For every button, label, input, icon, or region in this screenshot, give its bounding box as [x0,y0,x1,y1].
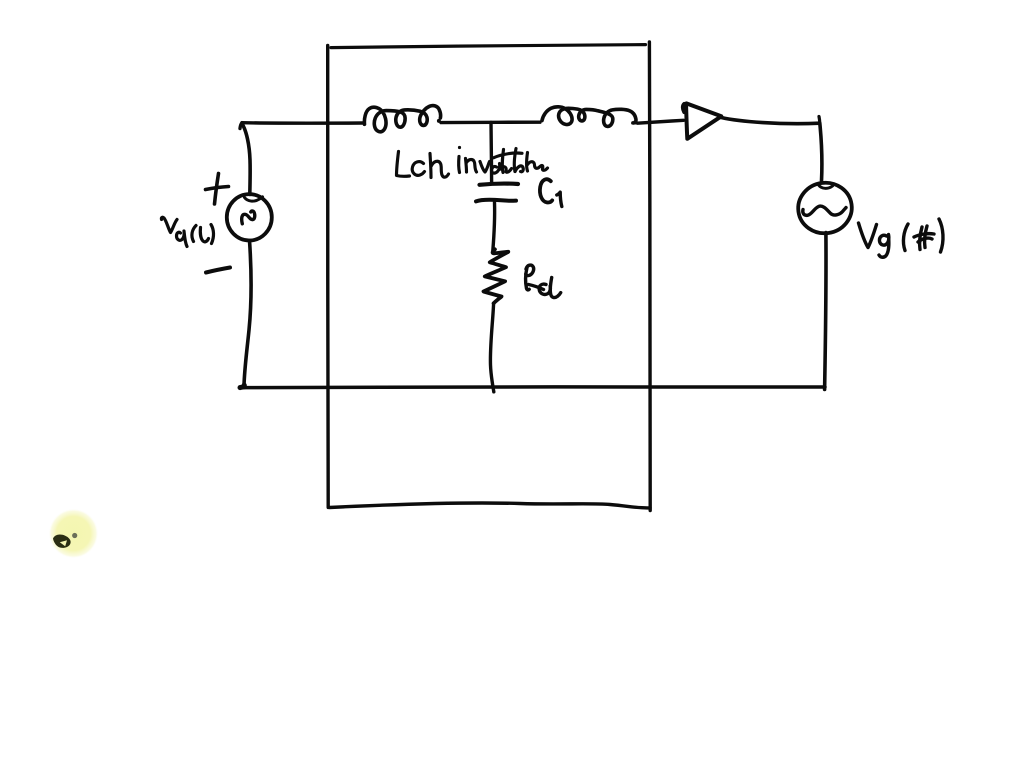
source vd top hook [245,197,263,201]
wire: rail from L2 to triangle [638,120,684,123]
buffer triangle U1 [683,103,721,138]
highlight cursor glow [0,0,1,1]
box left edge [326,46,330,508]
wire: top rail left segment [242,121,363,125]
label Vg(t) [859,219,944,257]
capacitor C1 bottom plate [476,200,516,202]
plus sign [215,174,219,205]
bottom rail left end blob [240,384,245,390]
inductor L1 end dot [437,119,441,123]
minus sign [206,268,230,273]
wire: triangle apex to right corner [721,118,819,124]
inductor L1 [364,106,440,132]
bottom rail [240,385,825,389]
box right edge [648,42,652,511]
wire: left vertical (vd bottom) [244,241,251,386]
label vd(t) [161,217,213,246]
capacitor C1 top plate [480,184,519,185]
inductor L2 end blob [633,120,637,124]
inductor L2 [542,107,636,127]
resistor Rd [484,249,509,303]
source Vg top hook [819,185,833,188]
label C1 [540,179,552,202]
label Rd [526,265,561,297]
source Vg circle [795,179,855,236]
wire: left vertical (vd top) [242,124,250,195]
box bottom edge [330,503,651,508]
wire: Vg bottom to bottom rail [825,233,826,390]
middle branch: wire top rail to cap [489,123,493,183]
wire: rail between L1 and L2 [441,120,540,124]
label LCh inverter [397,146,548,178]
pen cursor dot [72,533,77,538]
wire: right vertical down to Vg [820,123,822,181]
source vd tilde [242,211,255,224]
wire: corner overshoot tick [817,117,821,124]
pen cursor icon [53,534,71,547]
source vd circle [227,194,272,240]
wire: cap to resistor [493,203,495,252]
box top edge [331,45,646,48]
wire: resistor to bottom rail [490,303,493,392]
wire: small hook at top-left corner [240,123,242,129]
wire: left bottom end blob [242,383,247,388]
source Vg tilde [803,206,846,215]
